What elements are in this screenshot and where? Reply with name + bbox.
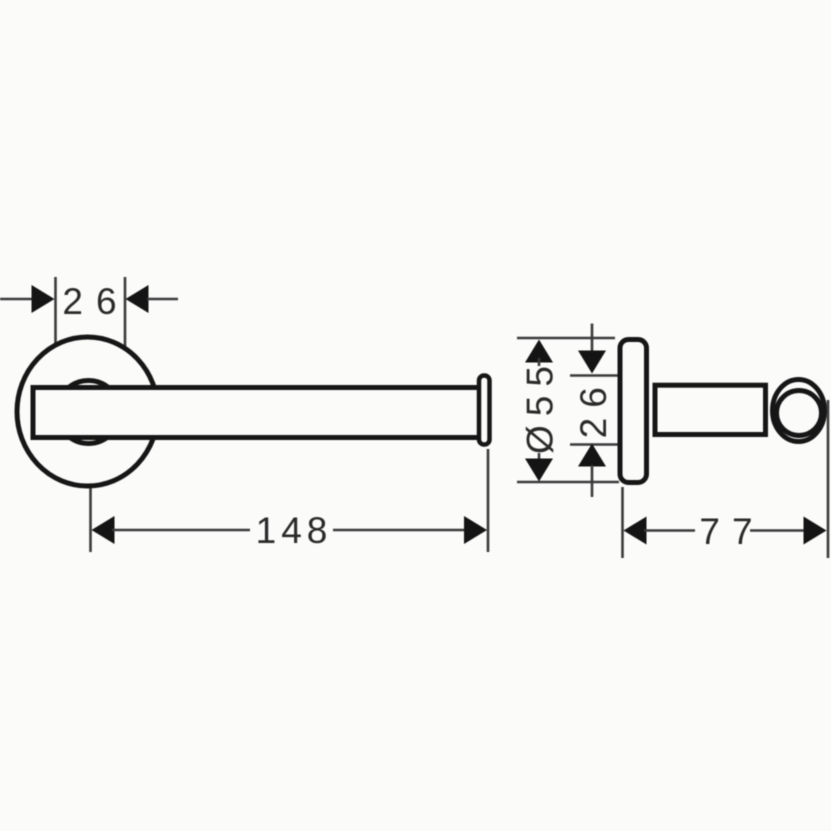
dimension 26 side: bottom arrow (pointing up) [578,444,606,467]
dimension 148: dimension line right segment [333,529,467,532]
dimension 148: left arrow [92,516,115,544]
dimension 26 side: top arrow (pointing down) [578,351,606,374]
dimension 26 side: top extension tick [570,374,619,377]
dimension 77: left extension line [621,487,624,558]
wall arm (side view) [655,385,766,434]
hub circle (front view) [57,381,120,444]
dimension D55: lower line stub [538,453,541,463]
dimension 148: right arrow [464,516,487,544]
dimension D55: top extension line [517,337,615,340]
ring outer ellipse (side view) [773,380,825,442]
dimension 77: left arrow [624,517,647,545]
dimension 77: right arrow [804,517,827,545]
dimension 148: left extension line [89,486,92,552]
dimension 26 side: bottom extension tick [570,443,619,446]
dimension 26 top-left: right leader line [147,298,178,301]
dimension 26 side: lower leader line [591,465,594,497]
dimension 26 side: upper leader line [591,324,594,356]
dimension 26 top-left: right extension line [124,277,127,348]
roll holder bar (front view) [33,388,480,438]
dimension D55: top arrow [525,340,553,363]
dimension 148: dimension line left segment [112,529,250,532]
svg-text:26: 26 [573,377,614,438]
dimension 77: right extension line [827,400,830,558]
dimension D55: bottom arrow [525,459,553,482]
ring inner circle (side view) [777,391,822,436]
svg-text:148: 148 [256,510,333,551]
dimension D55: upper line stub [538,358,541,366]
svg-text:Ø55: Ø55 [520,357,561,454]
dimension 26 top-left: right arrow [126,285,149,313]
dimension 148: right extension line [487,449,490,552]
dimension 77: dimension line left segment [644,529,695,532]
dimension 26 top-left: left arrow [32,285,55,313]
dimension 26 top-left: left extension line [54,277,57,346]
wall plate outer circle (front view) [17,337,158,486]
svg-text:26: 26 [62,281,129,322]
dimension 26 top-left: left leader line [0,298,33,301]
bar end cap (front view) [479,376,490,445]
dimension D55: bottom extension line [517,481,619,484]
dimension 77: dimension line right segment [750,529,806,532]
mounting plate (side view) [620,340,647,483]
